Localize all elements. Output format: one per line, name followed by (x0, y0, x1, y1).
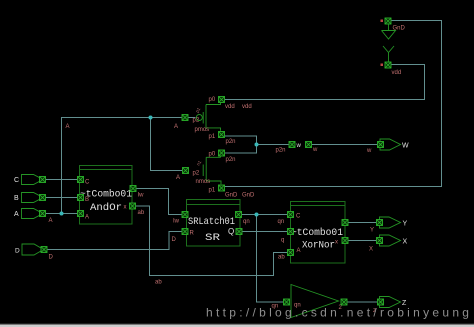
svg-text:Q: Q (228, 227, 234, 236)
svg-text:Y: Y (370, 228, 374, 234)
pin input B (40, 195, 46, 201)
svg-text:p0: p0 (209, 152, 216, 158)
svg-text:q: q (281, 238, 284, 244)
svg-text:vdd: vdd (225, 104, 235, 110)
output port Z (380, 297, 401, 308)
svg-text:B: B (14, 195, 19, 202)
svg-text:x: x (124, 205, 127, 211)
pin AndOr x/ab (130, 203, 136, 209)
pin w tie left (289, 142, 295, 148)
pin SRLatch R (182, 229, 188, 235)
pin input A (40, 211, 46, 217)
svg-text:qn: qn (243, 219, 250, 225)
svg-text:B: B (85, 197, 89, 203)
svg-text:GnD: GnD (225, 193, 238, 199)
svg-text:ab: ab (155, 280, 162, 286)
svg-text:p2n: p2n (226, 157, 236, 163)
inverter I5 triangle (291, 285, 339, 318)
wire net X: XorNor to output port X (349, 240, 377, 242)
wire pmos gate stub (189, 117, 196, 119)
pin XorNor C (288, 212, 294, 218)
wire net qn: SRLatch Qn to XorNor pin C (242, 214, 287, 216)
svg-text:GnD: GnD (242, 193, 255, 199)
svg-text:D: D (49, 255, 54, 261)
svg-text:A: A (176, 175, 180, 181)
input port D (22, 244, 44, 255)
pin port X (377, 238, 383, 244)
output port W (380, 139, 401, 150)
junction node p2n (255, 143, 259, 147)
transistor P2 pmos body (196, 103, 220, 131)
pin AndOr Iw (130, 186, 136, 192)
component U1 AndOr box (80, 166, 133, 225)
svg-text:p1: p1 (209, 134, 216, 140)
wire net p2n: stub to w tie (257, 144, 289, 146)
pin input C (40, 177, 46, 183)
svg-text:R: R (190, 231, 195, 237)
svg-text:W: W (402, 143, 409, 150)
svg-text:p0: p0 (209, 97, 216, 103)
wire net A: vertical riser and run to pmos gate (62, 118, 182, 214)
wire net A: input A to AndOr pin A (46, 213, 78, 215)
pin XorNor Y (342, 220, 348, 226)
power symbol vdd (383, 46, 394, 62)
svg-text:C: C (85, 180, 90, 186)
pin XorNor A (288, 250, 294, 256)
svg-text:pmos: pmos (195, 127, 210, 133)
pin inverter output (341, 299, 347, 305)
wire net qn: vertical drop to inverter input (257, 215, 284, 303)
pin input D (41, 247, 47, 253)
svg-text:X: X (369, 247, 373, 253)
pin AndOr B (78, 195, 84, 201)
pin nmos source p1 (219, 185, 225, 191)
pin AndOr A (78, 211, 84, 217)
svg-text:qn: qn (278, 219, 285, 225)
pin pmos source p1 (219, 132, 225, 138)
selection dot GnD (381, 20, 384, 23)
svg-text:C: C (296, 214, 301, 220)
svg-text:p1: p1 (209, 188, 216, 194)
wire net C: input C to AndOr pin C (46, 179, 78, 181)
wire net w: tie to output port W (312, 144, 377, 146)
svg-text:A: A (174, 124, 178, 130)
svg-text:w: w (312, 147, 318, 153)
wire net A: branch to nmos gate (151, 118, 183, 171)
wire net q: SRLatch Q to XorNor pin B (243, 231, 288, 233)
junction node A at input (60, 212, 64, 216)
junction node A at gate row (149, 116, 153, 120)
transistor P2 nmos body (203, 156, 221, 185)
svg-text:A: A (297, 248, 301, 254)
pin pmos drain p0 (219, 97, 225, 103)
svg-text:Iw: Iw (138, 193, 145, 199)
pin AndOr C (78, 177, 84, 183)
svg-text:A: A (14, 211, 19, 218)
pin port Z (378, 299, 384, 305)
svg-text:Iw: Iw (173, 219, 180, 225)
svg-text:p2: p2 (193, 171, 200, 177)
svg-text:ab: ab (138, 210, 145, 216)
svg-text:XorNor: XorNor (302, 240, 335, 252)
svg-text:nmos: nmos (196, 179, 211, 185)
svg-text:A: A (66, 124, 70, 130)
pin XorNor B (288, 229, 294, 235)
bottom window edge (0, 324, 474, 325)
wire net z: inverter output to port Z (348, 301, 378, 303)
svg-text:w: w (296, 143, 302, 149)
pin w tie right (306, 142, 312, 148)
pin inverter input (284, 299, 290, 305)
svg-text:SR: SR (205, 232, 220, 244)
svg-text:X: X (403, 239, 408, 246)
component U3 XorNor box (291, 202, 346, 264)
svg-text:p2n: p2n (226, 139, 236, 145)
junction node qn (255, 213, 259, 217)
svg-text:ab: ab (278, 255, 285, 261)
pin XorNor X (342, 238, 348, 244)
input port B (22, 193, 44, 203)
pin GnD (385, 18, 391, 24)
svg-text:p2n: p2n (276, 148, 286, 154)
wire net Iw: AndOr output to SRLatch pin S (137, 189, 182, 215)
svg-text:vdd: vdd (392, 70, 402, 76)
pin SRLatch Qn (236, 212, 242, 218)
wire net ab: AndOr output around to XorNor pin A (136, 206, 287, 276)
output port X (380, 235, 401, 246)
pin vdd (385, 62, 391, 68)
svg-text:C: C (14, 177, 19, 184)
svg-text:AndOr: AndOr (90, 202, 122, 214)
svg-text:A: A (49, 218, 53, 224)
svg-text:w: w (366, 148, 372, 154)
pin nmos gate (183, 168, 189, 174)
pin port Y (377, 220, 383, 226)
selection dot vdd (381, 64, 384, 67)
svg-text:~tCombo01: ~tCombo01 (291, 227, 343, 239)
svg-text:p2: p2 (193, 118, 200, 124)
svg-text:D: D (172, 237, 177, 243)
input port C (22, 175, 44, 185)
pin pmos gate (182, 115, 188, 121)
pin port W (378, 142, 384, 148)
wire net Y: XorNor to output port Y (349, 222, 377, 224)
svg-text:D: D (15, 248, 20, 255)
svg-text:vdd: vdd (242, 104, 252, 110)
wire net vdd: from vdd pin right and down to pmos drain (224, 65, 425, 100)
wire net p2n: pmos source to nmos drain bracket (225, 136, 257, 153)
pin SRLatch S (182, 212, 188, 218)
wire net B: input B to AndOr pin B (46, 197, 78, 199)
wire net D: input D to SRLatch pin R (48, 232, 182, 250)
input port A (22, 209, 44, 219)
ground symbol GnD (382, 25, 396, 40)
svg-text:x: x (335, 240, 338, 246)
svg-text:Y: Y (403, 221, 408, 228)
wire net GnD: from GnD pin right and down to nmos source (224, 21, 442, 187)
output port Y (380, 217, 401, 228)
pin SRLatch Q (236, 229, 242, 235)
pin nmos drain p0 (219, 150, 225, 156)
svg-text:A: A (85, 215, 89, 221)
svg-text:GnD: GnD (393, 26, 406, 32)
component U2 SRLatch box (187, 200, 241, 247)
